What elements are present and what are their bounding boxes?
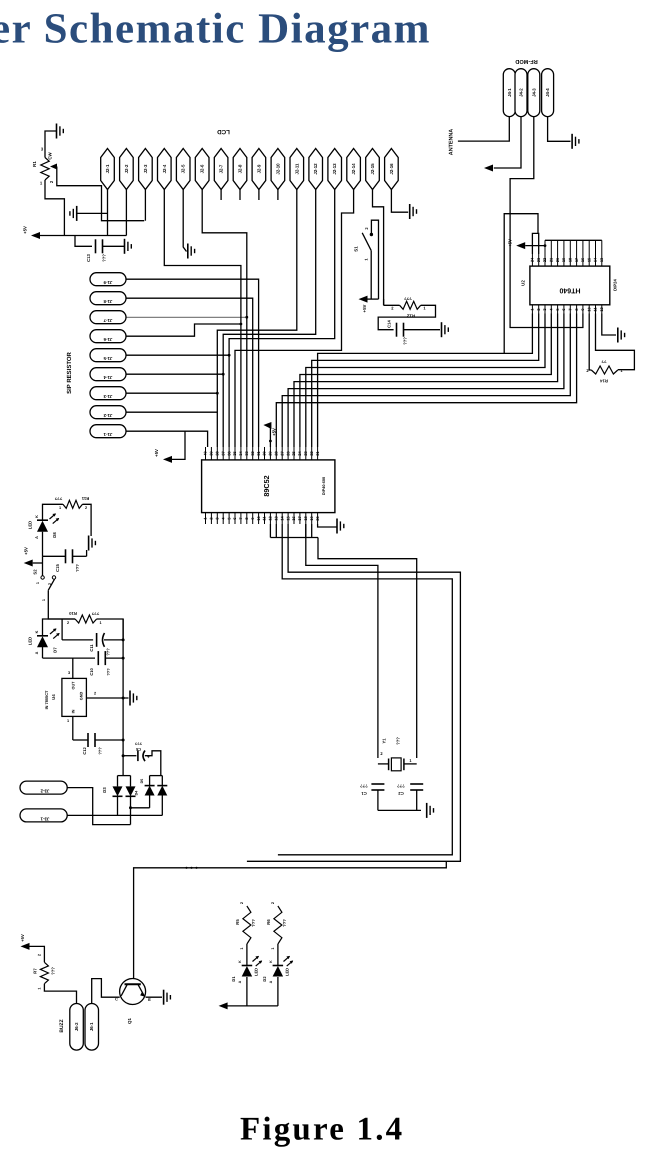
wire (U2 pin10 to R14 pin2) bbox=[589, 314, 591, 371]
svg-text:J1-9: J1-9 bbox=[103, 280, 112, 285]
+5V arrow (U1 pin29) bbox=[263, 422, 271, 429]
connector pin J4-4 bbox=[542, 69, 554, 117]
wire (J2-5 lead) bbox=[183, 190, 186, 252]
wire (U1 pin15 long loop to R5) bbox=[247, 524, 461, 861]
svg-text:J6-1: J6-1 bbox=[89, 1022, 94, 1031]
wire (J2-1 lead) bbox=[107, 190, 109, 236]
svg-text:???: ??? bbox=[134, 741, 142, 746]
ground (near J2-1) bbox=[76, 206, 78, 221]
wire bbox=[42, 532, 44, 557]
svg-text:OUT: OUT bbox=[72, 681, 76, 690]
svg-text:J4-2: J4-2 bbox=[519, 88, 524, 97]
svg-text:1: 1 bbox=[40, 181, 43, 186]
resistor R7 bbox=[40, 962, 48, 983]
wire (J1-6 joins pin34 net) bbox=[126, 324, 241, 336]
svg-text:2: 2 bbox=[364, 227, 369, 230]
svg-text:C12: C12 bbox=[82, 747, 87, 755]
svg-text:ANTENNA: ANTENNA bbox=[449, 129, 455, 155]
wire (R7 to buzzer) bbox=[44, 984, 76, 1004]
svg-text:1: 1 bbox=[409, 758, 412, 763]
encoder U2 HT640 body bbox=[530, 266, 610, 305]
wire (U2 pin12 to ground) bbox=[602, 314, 616, 336]
crystal Y1 bbox=[391, 758, 401, 771]
svg-text:J1-2: J1-2 bbox=[103, 413, 112, 418]
wire bbox=[172, 431, 185, 459]
svg-text:J2-15: J2-15 bbox=[370, 163, 375, 175]
svg-text:2: 2 bbox=[391, 306, 394, 311]
wire (LED rail) bbox=[228, 1005, 278, 1007]
svg-text:J2-5: J2-5 bbox=[181, 164, 186, 173]
svg-text:C13: C13 bbox=[86, 253, 91, 261]
wire (U1 pin13) bbox=[275, 524, 277, 538]
svg-text:2: 2 bbox=[240, 902, 244, 904]
U1 bottom pin numbers 1-20 bbox=[205, 513, 207, 524]
svg-text:J1-7: J1-7 bbox=[103, 318, 112, 323]
wire (U1 pin23 to U2 pin3) bbox=[306, 314, 545, 448]
+5V arrow (R7) bbox=[21, 943, 30, 950]
wire (J3-2 to D4 node) bbox=[67, 788, 130, 825]
svg-text:CW: CW bbox=[48, 151, 53, 159]
connector pin J2-5 bbox=[176, 149, 190, 190]
connector pin J2-10 bbox=[271, 149, 285, 190]
svg-text:K: K bbox=[35, 630, 39, 633]
svg-text:LED: LED bbox=[28, 521, 33, 529]
svg-text:R14: R14 bbox=[599, 379, 607, 384]
svg-text:C11: C11 bbox=[89, 644, 94, 652]
potentiometer R1 bbox=[41, 158, 49, 181]
svg-text:IN: IN bbox=[72, 709, 76, 713]
svg-text:Figure 1.4: Figure 1.4 bbox=[240, 1112, 404, 1148]
connector pin J1-6 bbox=[90, 330, 126, 343]
wire (base line to Q1 with break marks) bbox=[134, 861, 447, 984]
wire (U2 pins 24,23 box to TE line) bbox=[532, 233, 538, 254]
capacitor C6 (polarized) bbox=[137, 751, 139, 762]
wire (+5V rail) bbox=[40, 235, 126, 237]
regulator U4 IN7805CT bbox=[62, 678, 87, 716]
svg-text:J4-3: J4-3 bbox=[531, 88, 536, 97]
wire (S2 branch down) bbox=[61, 619, 63, 640]
+5V arrow (U2 address pins) bbox=[516, 242, 525, 249]
svg-text:J2-3: J2-3 bbox=[143, 164, 148, 173]
wire (diode bridge top left) bbox=[122, 756, 124, 776]
resistor R11 bbox=[63, 500, 83, 508]
connector pin J6-2 bbox=[70, 1004, 84, 1051]
LED D1 bbox=[242, 965, 253, 967]
connector pin J2-9 bbox=[252, 149, 266, 190]
wire (to crystal right) bbox=[318, 538, 417, 759]
U2 top pin numbers 24-13 bbox=[531, 254, 533, 266]
connector pin J4-3 bbox=[528, 69, 540, 117]
ground (J2-5) bbox=[187, 244, 189, 259]
wire (J1-4 joins pin37 net) bbox=[126, 373, 223, 375]
diode D4 bbox=[126, 786, 136, 796]
wire (U1 pin19 to crystal XTAL1) bbox=[311, 524, 313, 538]
connector pin J3-1 bbox=[20, 809, 67, 822]
wire (U1 pin21 to U2 pin1) bbox=[318, 314, 533, 448]
+5V arrow (S1) bbox=[359, 296, 368, 303]
ground (U4) bbox=[129, 691, 131, 706]
wire bbox=[377, 790, 379, 810]
svg-text:J2-4: J2-4 bbox=[162, 164, 167, 173]
svg-text:J2-13: J2-13 bbox=[332, 163, 337, 175]
svg-text:89C52: 89C52 bbox=[262, 475, 271, 496]
connector pin J2-16 bbox=[385, 149, 399, 190]
wire bbox=[105, 657, 123, 659]
wire (D5 D6 tops) bbox=[150, 775, 163, 777]
wire (U1 pin18) bbox=[305, 524, 307, 538]
svg-text:???: ??? bbox=[51, 967, 56, 975]
svg-text:D2: D2 bbox=[262, 976, 267, 982]
svg-text:1: 1 bbox=[99, 621, 101, 625]
wire bbox=[277, 977, 279, 1006]
wire (C6 row) bbox=[123, 755, 136, 757]
svg-text:DIP24: DIP24 bbox=[613, 279, 618, 291]
connector pin J1-9 bbox=[90, 273, 126, 286]
connector pin J4-1 bbox=[503, 69, 515, 117]
wire (U1 pin12) bbox=[269, 524, 271, 538]
connector pin J2-6 bbox=[195, 149, 209, 190]
wire (J2-15 to R12) bbox=[383, 299, 385, 305]
wire (J2-14 to U1 pin35) bbox=[235, 190, 354, 448]
svg-text:J4-1: J4-1 bbox=[507, 88, 512, 97]
wire (J4-4 to ground) bbox=[548, 117, 571, 142]
wire (U1 pin18 to crystal left) bbox=[305, 537, 307, 539]
wire (J2-12 to U1 pin37) bbox=[223, 190, 316, 448]
svg-text:J2-11: J2-11 bbox=[294, 163, 299, 175]
svg-text:R1: R1 bbox=[32, 161, 37, 167]
capacitor C11 (polarized) bbox=[96, 633, 98, 647]
svg-text:???: ??? bbox=[106, 668, 111, 676]
wire (U1 pin28 to U2 pin8) bbox=[276, 314, 576, 448]
svg-text:Y1: Y1 bbox=[382, 738, 387, 744]
svg-text:U4: U4 bbox=[51, 694, 56, 700]
svg-text:20: 20 bbox=[315, 516, 320, 520]
wire (U4 GND pin2) bbox=[86, 697, 128, 699]
svg-text:S1: S1 bbox=[354, 246, 359, 252]
capacitor C1 bbox=[371, 783, 384, 785]
svg-text:2: 2 bbox=[67, 621, 69, 625]
LED D7 bbox=[37, 635, 48, 637]
svg-text:LED: LED bbox=[254, 968, 259, 976]
wire (U1 pin22 to U2 pin2) bbox=[312, 314, 539, 448]
svg-text:J2-9: J2-9 bbox=[256, 164, 261, 173]
svg-text:J2-10: J2-10 bbox=[275, 163, 280, 175]
wire (D5 bottom) bbox=[149, 796, 151, 808]
wire (U2 pin11 to R14 pin1) bbox=[596, 314, 635, 370]
svg-text:R5: R5 bbox=[235, 919, 240, 925]
wire (D7 left rail) bbox=[43, 619, 76, 636]
ground (C13) bbox=[124, 239, 126, 254]
wire bbox=[33, 562, 43, 564]
svg-text:J2-1: J2-1 bbox=[105, 164, 110, 173]
svg-text:J2-7: J2-7 bbox=[219, 164, 224, 173]
wire bbox=[404, 329, 441, 331]
transistor Q1 bbox=[120, 979, 146, 1005]
svg-text:17: 17 bbox=[297, 516, 302, 520]
capacitor C2 bbox=[410, 783, 423, 785]
wire (D3 cathode to J3-1 line) bbox=[117, 796, 119, 815]
wire bbox=[525, 245, 545, 247]
svg-text:???: ??? bbox=[404, 296, 412, 301]
svg-text:J2-2: J2-2 bbox=[124, 164, 129, 173]
wire (D6 bottom to J3-1) bbox=[161, 796, 163, 816]
switch S2 bbox=[41, 576, 44, 579]
+5V arrow (top left) bbox=[31, 232, 40, 239]
wire (U2 pins 22-13 bus to +5V) bbox=[545, 239, 602, 241]
connector pin J2-3 bbox=[139, 149, 153, 190]
svg-text:3: 3 bbox=[68, 671, 70, 675]
wire bbox=[104, 639, 123, 641]
wire bbox=[246, 944, 248, 966]
arrow (J4-2 data) bbox=[484, 165, 493, 172]
wire (R1 pin 1) bbox=[45, 180, 64, 236]
svg-text:K: K bbox=[238, 960, 242, 963]
capacitor C15 bbox=[43, 555, 66, 557]
wire (J2-6 to U1 pin33) bbox=[202, 190, 247, 448]
wire (J4-2) bbox=[494, 117, 521, 168]
svg-text:J1-4: J1-4 bbox=[103, 375, 112, 380]
svg-text:J2-6: J2-6 bbox=[200, 164, 205, 173]
ground (crystal) bbox=[426, 803, 428, 818]
svg-text:2: 2 bbox=[49, 180, 54, 183]
wire (J1-5 joins pin36 net) bbox=[126, 354, 229, 356]
wire (J1-7 joins pin33 net) bbox=[126, 316, 247, 318]
wire (C11 row) bbox=[62, 639, 93, 641]
wire bbox=[30, 946, 45, 962]
ground (R11) bbox=[88, 536, 90, 551]
svg-text:???: ??? bbox=[54, 496, 62, 501]
wire (U1 pin20 to ground) bbox=[318, 524, 337, 527]
svg-text:R7: R7 bbox=[33, 968, 38, 974]
wire (J2-3 lead) bbox=[144, 190, 146, 221]
wire (R10 right to bus) bbox=[97, 619, 124, 640]
connector pin J2-2 bbox=[120, 149, 134, 190]
svg-text:D7: D7 bbox=[53, 647, 58, 653]
svg-text:C6: C6 bbox=[135, 747, 141, 752]
svg-text:U2: U2 bbox=[521, 280, 526, 286]
wire (U1 pin25 to U2 pin5) bbox=[294, 314, 558, 448]
MCU U1 89C52 body bbox=[202, 460, 335, 513]
wire (J2-10 stub) bbox=[277, 190, 279, 201]
svg-text:GND: GND bbox=[80, 692, 84, 701]
svg-text:10: 10 bbox=[256, 516, 261, 520]
connector pin J2-4 bbox=[158, 149, 172, 190]
wire (J2-15 lead) bbox=[373, 190, 384, 306]
wire (J1-3 joins pin38 net) bbox=[126, 392, 217, 394]
resistor R12 bbox=[400, 301, 421, 309]
svg-text:1: 1 bbox=[42, 599, 46, 601]
wire (S1 pin1) bbox=[370, 251, 372, 300]
wire (J4-1 antenna) bbox=[458, 117, 509, 142]
wire (J2-2 lead) bbox=[125, 190, 127, 236]
wire bbox=[86, 550, 88, 556]
wire bbox=[45, 131, 57, 158]
wire (J2-8 stub) bbox=[239, 190, 241, 201]
svg-text:C: C bbox=[115, 997, 118, 1002]
svg-text:+5V: +5V bbox=[154, 449, 159, 457]
svg-text:??: ?? bbox=[601, 359, 607, 364]
wire bbox=[416, 790, 418, 810]
svg-text:A: A bbox=[269, 980, 273, 983]
wire (R11 right to ground) bbox=[83, 504, 92, 536]
svg-text:LCD: LCD bbox=[217, 128, 230, 135]
ground (C14) bbox=[441, 322, 443, 337]
ground (pot top) bbox=[56, 124, 58, 139]
svg-text:J2-8: J2-8 bbox=[238, 164, 243, 173]
connector pin J4-2 bbox=[515, 69, 527, 117]
wire (J1-9 to U1 pin31) bbox=[126, 279, 259, 447]
connector pin J2-7 bbox=[214, 149, 228, 190]
connector pin J6-1 bbox=[85, 1004, 99, 1051]
capacitor C14 bbox=[396, 323, 398, 337]
svg-text:30: 30 bbox=[262, 451, 267, 455]
svg-text:1: 1 bbox=[67, 719, 69, 723]
connector pin J1-5 bbox=[90, 349, 126, 362]
svg-text:BUZZ: BUZZ bbox=[59, 1019, 65, 1032]
svg-text:IN 7805CT: IN 7805CT bbox=[44, 690, 49, 709]
svg-text:???: ??? bbox=[98, 747, 103, 755]
wire (J2-11 to U1 pin38) bbox=[217, 190, 296, 448]
ground (J4-4) bbox=[571, 134, 573, 149]
svg-text:1: 1 bbox=[59, 506, 61, 510]
ground (Q1) bbox=[163, 990, 165, 1005]
svg-text:+5V: +5V bbox=[23, 226, 28, 234]
wire (to U4 OUT) bbox=[72, 658, 74, 678]
ground (J2-16) bbox=[409, 204, 411, 219]
svg-text:SIP RESISTOR: SIP RESISTOR bbox=[66, 351, 73, 393]
wire (C10 row) bbox=[42, 646, 44, 658]
wire (U2 pin9 to J4-3) bbox=[510, 117, 583, 328]
connector pin J1-1 bbox=[90, 425, 126, 438]
wire (J2-13 to U1 pin36) bbox=[229, 190, 335, 448]
connector pin J2-13 bbox=[328, 149, 342, 190]
connector pin J1-7 bbox=[90, 311, 126, 324]
ground (U1 pin20) bbox=[336, 519, 338, 534]
LED D2 bbox=[273, 965, 284, 967]
svg-text:LED: LED bbox=[28, 637, 33, 645]
wire (U1 pin14 long loop to R6) bbox=[278, 524, 452, 855]
connector pin J3-2 bbox=[20, 781, 67, 794]
svg-text:J1-1: J1-1 bbox=[103, 432, 112, 437]
svg-text:A: A bbox=[238, 980, 242, 983]
svg-text:7: 7 bbox=[568, 308, 573, 310]
bus wire (regulator rail) bbox=[122, 619, 124, 756]
capacitor C12 bbox=[73, 739, 88, 741]
svg-text:+5V: +5V bbox=[24, 547, 29, 555]
svg-text:LED: LED bbox=[285, 968, 290, 976]
wire bbox=[246, 977, 248, 1006]
wire (pin12-19 bus) bbox=[270, 537, 318, 539]
svg-text:R6: R6 bbox=[266, 919, 271, 925]
diode D6 bbox=[157, 785, 167, 787]
wire (Q1 emitter to ground) bbox=[146, 996, 162, 998]
wire bbox=[103, 245, 125, 247]
svg-text:1: 1 bbox=[620, 368, 623, 373]
connector pin J1-4 bbox=[90, 368, 126, 381]
svg-text:D5: D5 bbox=[140, 779, 144, 784]
svg-text:S2: S2 bbox=[33, 569, 38, 575]
wire bbox=[306, 524, 378, 758]
wire (J6-1 to Q1 collector) bbox=[92, 979, 120, 1004]
connector pin J2-12 bbox=[309, 149, 323, 190]
wire (J2-16 lead) bbox=[391, 190, 408, 213]
svg-text:???: ??? bbox=[75, 564, 80, 572]
svg-text:???: ??? bbox=[251, 919, 256, 927]
svg-text:???: ??? bbox=[360, 784, 368, 789]
svg-text:40: 40 bbox=[203, 451, 208, 455]
wire (S2 to R10) bbox=[48, 590, 75, 619]
wire (J2-9 stub) bbox=[258, 190, 260, 201]
svg-text:K: K bbox=[269, 960, 273, 963]
wire (J3-1 to D6) bbox=[67, 814, 162, 816]
+5V arrow (S2 rail) bbox=[24, 560, 33, 567]
svg-text:1: 1 bbox=[364, 258, 369, 261]
svg-text:???: ??? bbox=[403, 337, 408, 345]
svg-text:1: 1 bbox=[38, 987, 42, 989]
wire (D4 cathode node) bbox=[130, 796, 132, 824]
wire (C13 branch) bbox=[75, 236, 92, 247]
capacitor C13 bbox=[95, 239, 97, 253]
svg-text:J2-12: J2-12 bbox=[313, 163, 318, 175]
wire (D4 to D5) bbox=[131, 807, 150, 809]
wire (J1-2 joins pin38 net) bbox=[126, 411, 217, 413]
connector pin J2-14 bbox=[347, 149, 361, 190]
svg-text:+5V: +5V bbox=[20, 934, 25, 942]
svg-text:???: ??? bbox=[397, 784, 405, 789]
svg-text:???: ??? bbox=[396, 737, 401, 745]
wire (U4 IN pin1) bbox=[72, 716, 74, 740]
wire bbox=[77, 212, 108, 214]
svg-text:C10: C10 bbox=[89, 668, 94, 676]
svg-text:20: 20 bbox=[555, 258, 560, 262]
svg-text:D4: D4 bbox=[135, 791, 139, 796]
connector pin J2-15 bbox=[366, 149, 380, 190]
connector pin J1-2 bbox=[90, 406, 126, 419]
svg-text:27: 27 bbox=[279, 451, 284, 455]
svg-text:J1-6: J1-6 bbox=[103, 337, 112, 342]
svg-text:D8: D8 bbox=[52, 532, 57, 538]
svg-text:10: 10 bbox=[586, 307, 591, 311]
svg-text:1: 1 bbox=[240, 947, 244, 949]
svg-text:17: 17 bbox=[574, 258, 579, 262]
svg-text:???: ??? bbox=[282, 919, 287, 927]
svg-text:R10: R10 bbox=[68, 611, 76, 616]
svg-text:J1-8: J1-8 bbox=[103, 299, 112, 304]
svg-text:J1-3: J1-3 bbox=[103, 394, 112, 399]
svg-text:J6-2: J6-2 bbox=[74, 1022, 79, 1031]
svg-text:C2: C2 bbox=[398, 791, 404, 796]
svg-text:2: 2 bbox=[380, 751, 383, 756]
svg-text:K: K bbox=[35, 515, 39, 518]
wire (J1-1 to U1 pin40) bbox=[126, 431, 208, 447]
svg-text:HT640: HT640 bbox=[559, 287, 580, 294]
U2 bottom pin numbers 1-12 bbox=[531, 305, 533, 314]
svg-text:???: ??? bbox=[91, 611, 99, 616]
resistor R14 bbox=[591, 366, 618, 374]
svg-text:er Schematic Diagram: er Schematic Diagram bbox=[0, 6, 431, 53]
wire bbox=[368, 298, 379, 300]
wire (R12 to C14 loop) bbox=[378, 305, 435, 329]
svg-text:C14: C14 bbox=[387, 319, 392, 327]
+5V arrow (U1 pin40) bbox=[163, 456, 172, 463]
wire (crystal ground rail) bbox=[378, 809, 421, 811]
svg-text:J2-16: J2-16 bbox=[389, 163, 394, 175]
svg-text:RF-MOD: RF-MOD bbox=[515, 58, 537, 64]
wire bbox=[277, 944, 279, 966]
wire (J2-7 stub) bbox=[220, 190, 222, 201]
svg-text:1: 1 bbox=[271, 947, 275, 949]
svg-text:2: 2 bbox=[38, 954, 42, 956]
